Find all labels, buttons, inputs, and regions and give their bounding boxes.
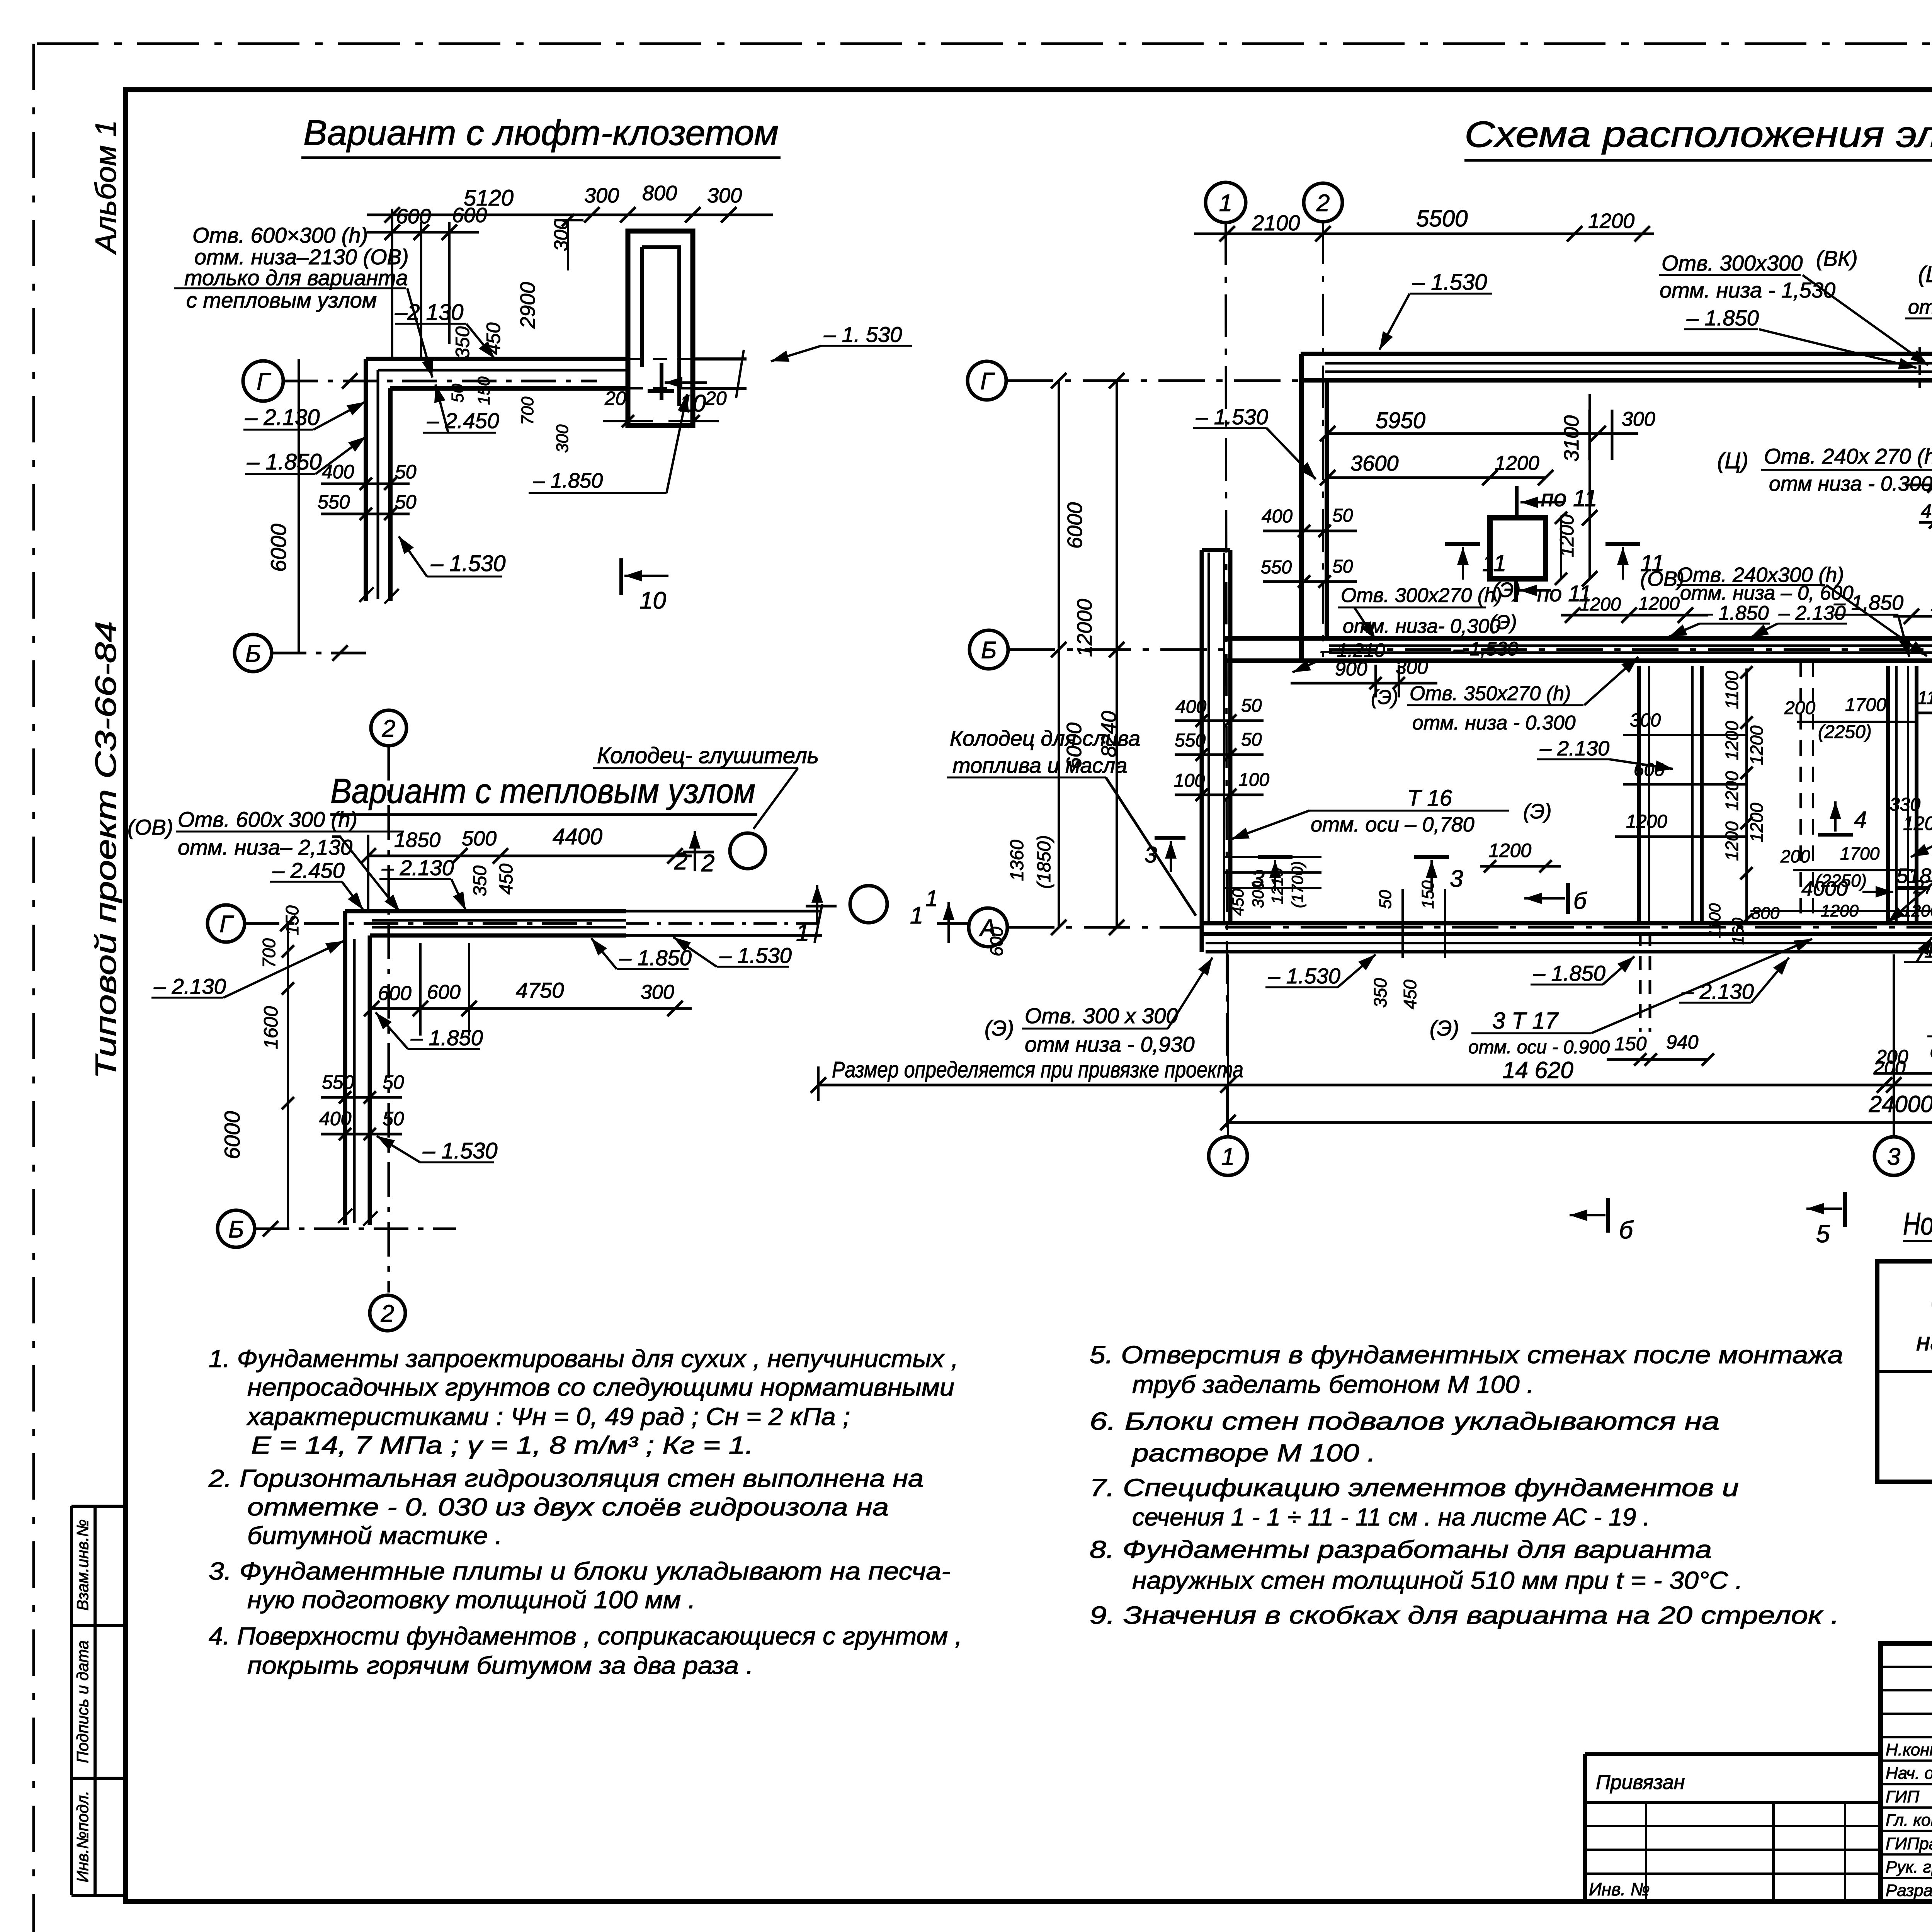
svg-text:1160: 1160 (1917, 688, 1932, 708)
detail 1: dim 400/50 (321, 483, 410, 485)
detail 1: dim 550/50 (321, 513, 410, 515)
svg-text:(Э): (Э) (1523, 800, 1551, 823)
svg-text:отм низа - 0,930: отм низа - 0,930 (1025, 1032, 1195, 1056)
svg-text:Гл. констр: Гл. констр (1886, 1811, 1932, 1830)
svg-text:200: 200 (1873, 1057, 1906, 1078)
plan: axis 1 vertical line (1226, 223, 1227, 1136)
detail 2: axis circle Г (207, 905, 245, 942)
svg-text:Б: Б (981, 637, 997, 663)
svg-text:150: 150 (1614, 1033, 1647, 1054)
plan: square opening (по 11) (1490, 518, 1546, 579)
plan: axis circle Б left (969, 630, 1008, 669)
detail 1: axis line Б (272, 652, 373, 655)
svg-text:Инв. №: Инв. № (1589, 1879, 1650, 1899)
svg-text:50: 50 (1376, 890, 1395, 909)
detail 1: vertical extension line for 6000 (298, 359, 300, 653)
detail 2: axis line 2 vertical (388, 746, 390, 1293)
svg-text:200: 200 (1780, 846, 1810, 866)
svg-text:4: 4 (1854, 807, 1867, 833)
svg-text:Инв.№подл.: Инв.№подл. (73, 1791, 92, 1882)
svg-text:350: 350 (452, 326, 473, 359)
svg-text:1200: 1200 (1930, 595, 1932, 615)
svg-text:1200: 1200 (1747, 803, 1767, 842)
plan: dim 400/50 550/50 (west, upper room) (1263, 530, 1357, 532)
svg-text:непросадочных грунтов со сл: непросадочных грунтов со следующими норм… (247, 1373, 954, 1401)
svg-text:50: 50 (1241, 696, 1262, 716)
svg-text:ную подготовку толщиной 10: ную подготовку толщиной 100 мм . (247, 1586, 696, 1614)
svg-text:160: 160 (1729, 917, 1747, 945)
svg-text:(ОВ): (ОВ) (128, 815, 173, 839)
detail 1: dimension 600/600 (367, 231, 479, 234)
svg-text:наружных стен толщиной 510: наружных стен толщиной 510 мм при t = - … (1132, 1566, 1743, 1594)
svg-text:330: 330 (1889, 794, 1920, 815)
svg-text:1200: 1200 (1638, 594, 1680, 614)
svg-text:– 1. 530: – 1. 530 (823, 322, 902, 347)
svg-text:5950: 5950 (1376, 408, 1425, 433)
plan: dashed opening marks in north wall (1918, 347, 1921, 388)
svg-text:Отв. 240х 270 (h): Отв. 240х 270 (h) (1764, 444, 1932, 468)
svg-text:характеристиками : Ψн = 0, 49: характеристиками : Ψн = 0, 49 рад ; Сн =… (246, 1403, 850, 1430)
loads table frame (1877, 1261, 1932, 1482)
plan: top dimension chain 2100/5500/1200 (1194, 233, 1654, 235)
left margin stamp boxes (71, 1505, 126, 1508)
svg-text:4750: 4750 (516, 978, 564, 1002)
svg-text:1200: 1200 (1722, 821, 1742, 861)
detail 1: well inner U (642, 247, 679, 406)
svg-text:450: 450 (1400, 980, 1420, 1009)
svg-text:2: 2 (674, 848, 687, 875)
svg-text:(Ц): (Ц) (1717, 448, 1748, 473)
plan: dim 200/980 (1874, 1072, 1932, 1075)
svg-text:отм. оси - 0.900, - 1.100: отм. оси - 0.900, - 1.100 (1930, 1039, 1932, 1063)
svg-text:– 1.850: – 1.850 (533, 469, 603, 492)
svg-text:300: 300 (707, 184, 742, 207)
svg-text:Б: Б (228, 1216, 244, 1243)
svg-text:растворе М 100 .: растворе М 100 . (1131, 1439, 1376, 1467)
svg-text:400: 400 (322, 461, 354, 483)
svg-text:2900: 2900 (516, 282, 539, 329)
svg-text:300: 300 (1396, 656, 1428, 678)
detail 2: wall vertical (plan) (343, 911, 347, 1225)
svg-text:Отв. 300х300: Отв. 300х300 (1662, 251, 1803, 275)
svg-text:350: 350 (1370, 978, 1390, 1008)
plan: axis circle 1 top (1206, 182, 1246, 223)
привязан block (1585, 1752, 1881, 1756)
svg-text:6. Блоки стен подвалов у: 6. Блоки стен подвалов укладываются на (1090, 1407, 1719, 1435)
svg-text:2. Горизонтальная гидроизоля: 2. Горизонтальная гидроизоляция стен вып… (208, 1464, 923, 1492)
svg-text:(ВК): (ВК) (1816, 246, 1858, 270)
plan: dim 5680/5000 (1905, 484, 1932, 486)
svg-text:1200: 1200 (1626, 811, 1667, 832)
svg-text:800: 800 (1751, 904, 1780, 923)
svg-text:отм. оси – 0,780: отм. оси – 0,780 (1311, 813, 1475, 836)
svg-text:(2250): (2250) (1818, 722, 1872, 742)
svg-text:5: 5 (1816, 1220, 1830, 1248)
svg-text:Отв. 600х 300 (h): Отв. 600х 300 (h) (178, 807, 357, 832)
svg-text:3: 3 (1887, 1143, 1900, 1170)
plan: axis circle 2 top (1304, 183, 1342, 222)
svg-text:Взам.инв.№: Взам.инв.№ (73, 1519, 92, 1611)
plan: stair room vertical dim column (1745, 668, 1748, 922)
svg-text:500: 500 (462, 827, 497, 850)
svg-text:Г: Г (219, 911, 234, 937)
svg-text:7. Спецификацию элементов: 7. Спецификацию элементов фундаментов и (1090, 1474, 1739, 1502)
svg-text:300: 300 (641, 981, 674, 1003)
plan: north wall (1301, 352, 1932, 356)
svg-text:Отв. 600×300 (h): Отв. 600×300 (h) (192, 223, 368, 247)
svg-text:Т 16: Т 16 (1407, 786, 1452, 811)
svg-text:1: 1 (910, 902, 923, 929)
svg-text:ГИП: ГИП (1886, 1787, 1919, 1806)
top dash-dot page border (37, 43, 1932, 45)
plan: bottom dim chain 2 (24000/2100) (1228, 1121, 1932, 1124)
detail 1: axis line Г (283, 380, 597, 383)
detail 1: section flag 10 (below well) (619, 558, 623, 595)
detail 1: wall break bottom (359, 587, 374, 602)
svg-text:1200: 1200 (1495, 452, 1539, 474)
svg-text:– 2.130: – 2.130 (381, 855, 454, 880)
detail 2: wall break bottom (338, 1209, 352, 1223)
svg-text:Рук. гр.: Рук. гр. (1886, 1858, 1932, 1877)
svg-text:1200: 1200 (1588, 209, 1634, 233)
svg-text:Размер определяется при при: Размер определяется при привязке проекта (832, 1057, 1243, 1082)
svg-text:б: б (1619, 1216, 1634, 1244)
svg-text:1700: 1700 (1840, 844, 1880, 864)
svg-text:1. Фундаменты запроектирован: 1. Фундаменты запроектированы для сухих … (209, 1345, 958, 1372)
title block outer (1881, 1643, 1932, 1901)
svg-text:Колодец- глушитель: Колодец- глушитель (597, 743, 819, 768)
plan: axis circle Г left (968, 361, 1006, 400)
plan: dim 1200 + б flag (left room) (1480, 865, 1561, 868)
svg-text:6000: 6000 (266, 524, 291, 572)
svg-text:400: 400 (319, 1108, 352, 1129)
svg-text:1700: 1700 (1845, 695, 1886, 715)
svg-text:отм. низа - 0.300: отм. низа - 0.300 (1412, 712, 1576, 734)
svg-text:Отв. 350х270 (h): Отв. 350х270 (h) (1410, 682, 1571, 705)
svg-text:труб заделать бетоном М 10: труб заделать бетоном М 100 . (1132, 1371, 1534, 1398)
detail 2: axis circle Б (218, 1210, 255, 1247)
detail 2: wall horizontal (plan) (345, 909, 626, 913)
svg-text:1600: 1600 (260, 1006, 282, 1049)
svg-text:480: 480 (1921, 500, 1932, 522)
svg-text:3600: 3600 (1350, 451, 1399, 475)
plan: dim 150/940 (1607, 1058, 1708, 1061)
plan: по 11 flag upper (1515, 486, 1519, 518)
svg-text:3 Т 17: 3 Т 17 (1492, 1008, 1559, 1034)
svg-text:по 11: по 11 (1541, 485, 1597, 511)
svg-text:6000: 6000 (1063, 502, 1087, 549)
svg-text:14 620: 14 620 (1502, 1057, 1573, 1083)
left dash-dot page border (32, 44, 35, 1932)
svg-text:Нач. отд: Нач. отд (1886, 1764, 1932, 1783)
svg-text:– 1.850: – 1.850 (1533, 961, 1605, 985)
plan: bottom axis circle 3 (1874, 1137, 1913, 1175)
svg-text:(Э): (Э) (1490, 611, 1517, 634)
svg-text:24000: 24000 (1869, 1091, 1932, 1117)
plan: dim 480/240 (1919, 521, 1932, 524)
svg-text:600: 600 (452, 204, 487, 227)
svg-text:3: 3 (1450, 866, 1463, 892)
svg-text:– 1.850: – 1.850 (247, 449, 322, 474)
svg-text:6000: 6000 (220, 1111, 244, 1159)
svg-text:50: 50 (1332, 556, 1353, 577)
svg-text:Вариант с тепловым узлом: Вариант с тепловым узлом (330, 772, 755, 811)
svg-text:только для варианта: только для варианта (184, 265, 408, 290)
svg-text:– 2.450: – 2.450 (272, 858, 345, 883)
svg-text:50: 50 (395, 461, 417, 483)
plan: left vertical dim lines (1058, 381, 1060, 927)
plan: dims 400/50 550/50 100/100 (west, lower room) (1175, 719, 1264, 722)
svg-text:отметке - 0. 030 из двух с: отметке - 0. 030 из двух слоёв гидроизол… (247, 1493, 889, 1521)
svg-text:600: 600 (1634, 760, 1665, 780)
svg-text:(Ш): (Ш) (1918, 262, 1932, 287)
svg-text:– 1.530: – 1.530 (422, 1138, 498, 1163)
plan: partition P2 (1886, 666, 1890, 923)
svg-text:отм. оси - 0,900- 1,100: отм. оси - 0,900- 1,100 (1908, 296, 1932, 318)
svg-text:Вариант с люфт-клозетом: Вариант с люфт-клозетом (303, 113, 779, 153)
svg-text:(1700): (1700) (1288, 861, 1306, 908)
svg-text:550: 550 (1261, 557, 1292, 578)
svg-text:2: 2 (1316, 190, 1330, 216)
svg-text:5. Отверстия в фундаментных: 5. Отверстия в фундаментных стенах после… (1090, 1341, 1843, 1369)
plan: dim 5950/300 (1328, 432, 1638, 435)
svg-text:– 1,530: – 1,530 (1453, 638, 1518, 660)
plan: dim 1160/240 (1917, 712, 1932, 714)
svg-text:300: 300 (584, 184, 619, 207)
svg-text:5180: 5180 (1896, 864, 1932, 888)
plan: wall on axis Б (1223, 636, 1932, 641)
detail 2: axis circle 2 bottom (370, 1295, 405, 1331)
svg-text:20: 20 (705, 388, 727, 409)
svg-text:12000: 12000 (1073, 599, 1096, 657)
svg-text:Разраб.: Разраб. (1886, 1881, 1932, 1900)
svg-text:Отв. 300х270 (h): Отв. 300х270 (h) (1341, 584, 1502, 607)
plan: axis 2 vertical line (1322, 222, 1324, 657)
plan: left room: dim 900/300 (1291, 682, 1437, 685)
svg-text:– 1.530: – 1.530 (1412, 270, 1487, 295)
svg-text:600: 600 (986, 927, 1007, 956)
svg-text:600: 600 (427, 981, 461, 1003)
svg-text:300: 300 (1622, 408, 1655, 430)
detail 1: section flag 10 (in well) (660, 363, 663, 400)
svg-text:– 1.530: – 1.530 (719, 943, 792, 968)
svg-text:3100: 3100 (1560, 415, 1583, 462)
svg-text:с тепловым узлом: с тепловым узлом (186, 288, 377, 312)
svg-text:50: 50 (448, 384, 467, 403)
svg-text:1: 1 (1219, 190, 1232, 216)
svg-text:1100: 1100 (1706, 903, 1724, 938)
svg-text:700: 700 (518, 396, 537, 425)
svg-text:940: 940 (1666, 1031, 1699, 1053)
svg-text:4. Поверхности фундаментов ,: 4. Поверхности фундаментов , соприкасающ… (209, 1622, 962, 1650)
svg-text:– 1.850: – 1.850 (410, 1026, 483, 1050)
svg-text:1200: 1200 (1902, 901, 1932, 920)
svg-text:сечения 1 - 1 ÷ 11 - 11 см: сечения 1 - 1 ÷ 11 - 11 см . на листе АС… (1132, 1503, 1650, 1531)
svg-text:Привязан: Привязан (1596, 1771, 1685, 1794)
svg-text:– 1.850: – 1.850 (1686, 306, 1759, 330)
detail 1: axis circle Б (235, 634, 272, 672)
plan: section flag 3 (west) (1155, 836, 1185, 840)
plan: flag 4 (stair) (1818, 833, 1853, 837)
svg-text:– 2.130: – 2.130 (1778, 602, 1846, 624)
svg-text:300: 300 (553, 424, 572, 453)
svg-text:1200: 1200 (1488, 840, 1531, 861)
svg-text:450: 450 (1229, 888, 1247, 916)
svg-text:1200: 1200 (1747, 725, 1767, 765)
plan: bottom dim chain 1 (14620/200/6200/3180) (818, 1084, 1932, 1087)
svg-text:Альбом 1: Альбом 1 (90, 120, 122, 255)
svg-text:Подпись и дата: Подпись и дата (73, 1640, 92, 1763)
svg-text:(Э): (Э) (1371, 686, 1398, 709)
svg-text:– 2.130: – 2.130 (1539, 737, 1609, 760)
plan: partition P1 (1637, 666, 1641, 923)
svg-text:1200: 1200 (1821, 901, 1859, 920)
svg-text:– 1.530: – 1.530 (430, 551, 506, 576)
svg-text:3. Фундаментные плиты и бло: 3. Фундаментные плиты и блоки укладывают… (209, 1557, 951, 1585)
svg-text:– 1.850: – 1.850 (619, 946, 692, 970)
plan: west protruding wall lower (1200, 550, 1204, 952)
svg-text:120: 120 (1903, 813, 1932, 834)
svg-text:50: 50 (383, 1108, 404, 1129)
svg-text:(1850): (1850) (1034, 835, 1054, 889)
svg-text:400: 400 (1262, 506, 1293, 527)
svg-text:1: 1 (1221, 1143, 1235, 1170)
svg-text:топлива и масла: топлива и масла (952, 753, 1127, 777)
plan: bottom axis circle 1 (1209, 1137, 1247, 1175)
plan: axis circle А left (969, 908, 1007, 947)
svg-text:– 1.210: – 1.210 (1320, 639, 1385, 661)
detail 2: dim 600/600/4750/300 (372, 1007, 692, 1010)
svg-text:300: 300 (1630, 710, 1661, 731)
detail 2: well circle 2 (колодец для слива) (850, 886, 887, 923)
plan: axis extensions to bottom circles (1227, 954, 1229, 1136)
svg-text:50: 50 (395, 491, 417, 513)
svg-text:Г: Г (980, 368, 995, 395)
svg-text:Схема: Схема (1930, 1289, 1932, 1317)
svg-text:2: 2 (701, 850, 714, 877)
svg-text:Нормативные нагрузки на обр: Нормативные нагрузки на обрезе фундамент… (1903, 1206, 1932, 1242)
svg-text:Б: Б (245, 640, 261, 667)
svg-text:(2250): (2250) (1815, 871, 1867, 891)
plan: bottom dims of stair room 800/1200/1200/800 (1750, 910, 1932, 912)
svg-text:1360: 1360 (1007, 840, 1027, 881)
svg-text:11: 11 (1482, 550, 1506, 576)
detail 1: axis circle Г (243, 361, 283, 401)
detail 2: section flags 1 (806, 905, 837, 908)
loads table header separator (1877, 1370, 1932, 1373)
svg-text:20: 20 (604, 388, 626, 409)
svg-text:1200: 1200 (1722, 771, 1742, 811)
svg-text:Н.контр: Н.контр (1886, 1740, 1932, 1759)
svg-text:Типовой проект С3-66-84: Типовой проект С3-66-84 (90, 621, 122, 1079)
svg-text:нагрузки: нагрузки (1916, 1327, 1932, 1356)
plan: section flags 3 (1258, 855, 1293, 859)
svg-text:– 2.450: – 2.450 (427, 408, 499, 433)
svg-text:1200: 1200 (1722, 721, 1742, 760)
svg-text:5500: 5500 (1416, 206, 1468, 231)
detail 1: north wall plan (double lines) (366, 357, 628, 361)
svg-text:– 2.130: – 2.130 (153, 974, 226, 998)
svg-text:–2 130: –2 130 (395, 300, 463, 325)
svg-text:отм. низа– 2,130: отм. низа– 2,130 (178, 835, 352, 859)
plan: dashed marks at south wall (1639, 932, 1642, 1032)
svg-text:(Э): (Э) (985, 1016, 1014, 1040)
svg-text:Колодец для слива: Колодец для слива (950, 726, 1140, 750)
svg-text:550: 550 (1175, 730, 1206, 751)
svg-text:350: 350 (470, 866, 490, 896)
plan: section flag 1 left (937, 922, 968, 925)
svg-text:– 1.530: – 1.530 (1268, 964, 1340, 988)
detail 1: wall right of well (693, 357, 747, 361)
svg-text:450: 450 (483, 322, 504, 355)
detail 2: dim chain 1850/500/4400 (368, 855, 692, 857)
svg-text:1850: 1850 (394, 828, 440, 852)
svg-text:2: 2 (382, 715, 395, 742)
svg-text:Е = 14, 7 МПа ; γ = 1,: Е = 14, 7 МПа ; γ = 1, 8 т/м³ ; Кг = 1. (251, 1431, 753, 1459)
svg-text:550: 550 (322, 1071, 354, 1093)
svg-text:100: 100 (1174, 770, 1205, 791)
detail 2: dim 400/50 (321, 1133, 402, 1136)
svg-text:покрыть горячим битумом з: покрыть горячим битумом за два раза . (247, 1651, 753, 1679)
detail 2: dim 550/50 (321, 1096, 402, 1099)
svg-text:1100: 1100 (1722, 671, 1742, 709)
svg-text:4400: 4400 (553, 824, 602, 849)
svg-text:450: 450 (496, 864, 517, 895)
svg-text:8. Фундаменты разработаны: 8. Фундаменты разработаны для варианта (1090, 1536, 1712, 1563)
detail 2: well circle (колодец) (730, 833, 765, 869)
svg-text:2: 2 (381, 1300, 394, 1327)
svg-text:150: 150 (474, 376, 493, 405)
title block signature grid (1881, 1666, 1932, 1668)
svg-text:150: 150 (1418, 880, 1437, 909)
svg-text:2100: 2100 (1252, 211, 1300, 235)
plan: west wall upper (1299, 354, 1304, 661)
svg-text:Схема расположения элементов: Схема расположения элементов фундаментов (1464, 114, 1932, 155)
plan: bottom section flags б and 5 (1606, 1198, 1610, 1233)
svg-text:Г: Г (257, 368, 271, 395)
svg-text:10: 10 (639, 587, 666, 614)
svg-text:50: 50 (383, 1071, 404, 1093)
svg-text:1200: 1200 (1580, 594, 1621, 615)
svg-text:– 1.530: – 1.530 (1196, 405, 1268, 429)
svg-text:200: 200 (1784, 698, 1815, 718)
svg-text:50: 50 (1241, 730, 1262, 750)
svg-text:1: 1 (925, 886, 938, 911)
svg-text:– 1.850: – 1.850 (1701, 602, 1769, 624)
svg-text:Отв. 300 х 300: Отв. 300 х 300 (1025, 1003, 1178, 1028)
svg-text:150: 150 (282, 905, 302, 935)
svg-text:300: 300 (1249, 881, 1267, 908)
svg-text:100: 100 (1238, 770, 1269, 790)
svg-text:400: 400 (1175, 697, 1206, 717)
svg-text:отм. оси - 0.900: отм. оси - 0.900 (1468, 1037, 1610, 1058)
svg-text:б: б (1573, 888, 1587, 914)
plan: dim 3600/1200 (1328, 476, 1546, 479)
detail 2: axis circle 2 top (371, 710, 406, 746)
plan: dim 1200 1200 (above Б wall, right) (1893, 615, 1932, 618)
svg-text:ГИПразд.: ГИПразд. (1886, 1834, 1932, 1853)
detail 2: section flags 2 (683, 851, 714, 854)
plan: section flags 11 (1445, 542, 1480, 546)
svg-text:(Э): (Э) (1430, 1016, 1459, 1040)
svg-text:9. Значения в скобках для: 9. Значения в скобках для варианта на 20… (1090, 1601, 1839, 1629)
svg-text:550: 550 (318, 491, 350, 513)
svg-text:50: 50 (1332, 505, 1353, 526)
svg-text:– 2.130: – 2.130 (245, 405, 320, 430)
svg-text:600: 600 (396, 205, 431, 228)
svg-text:битумной мастике .: битумной мастике . (247, 1522, 502, 1549)
plan: south wall left section (1201, 921, 1932, 925)
